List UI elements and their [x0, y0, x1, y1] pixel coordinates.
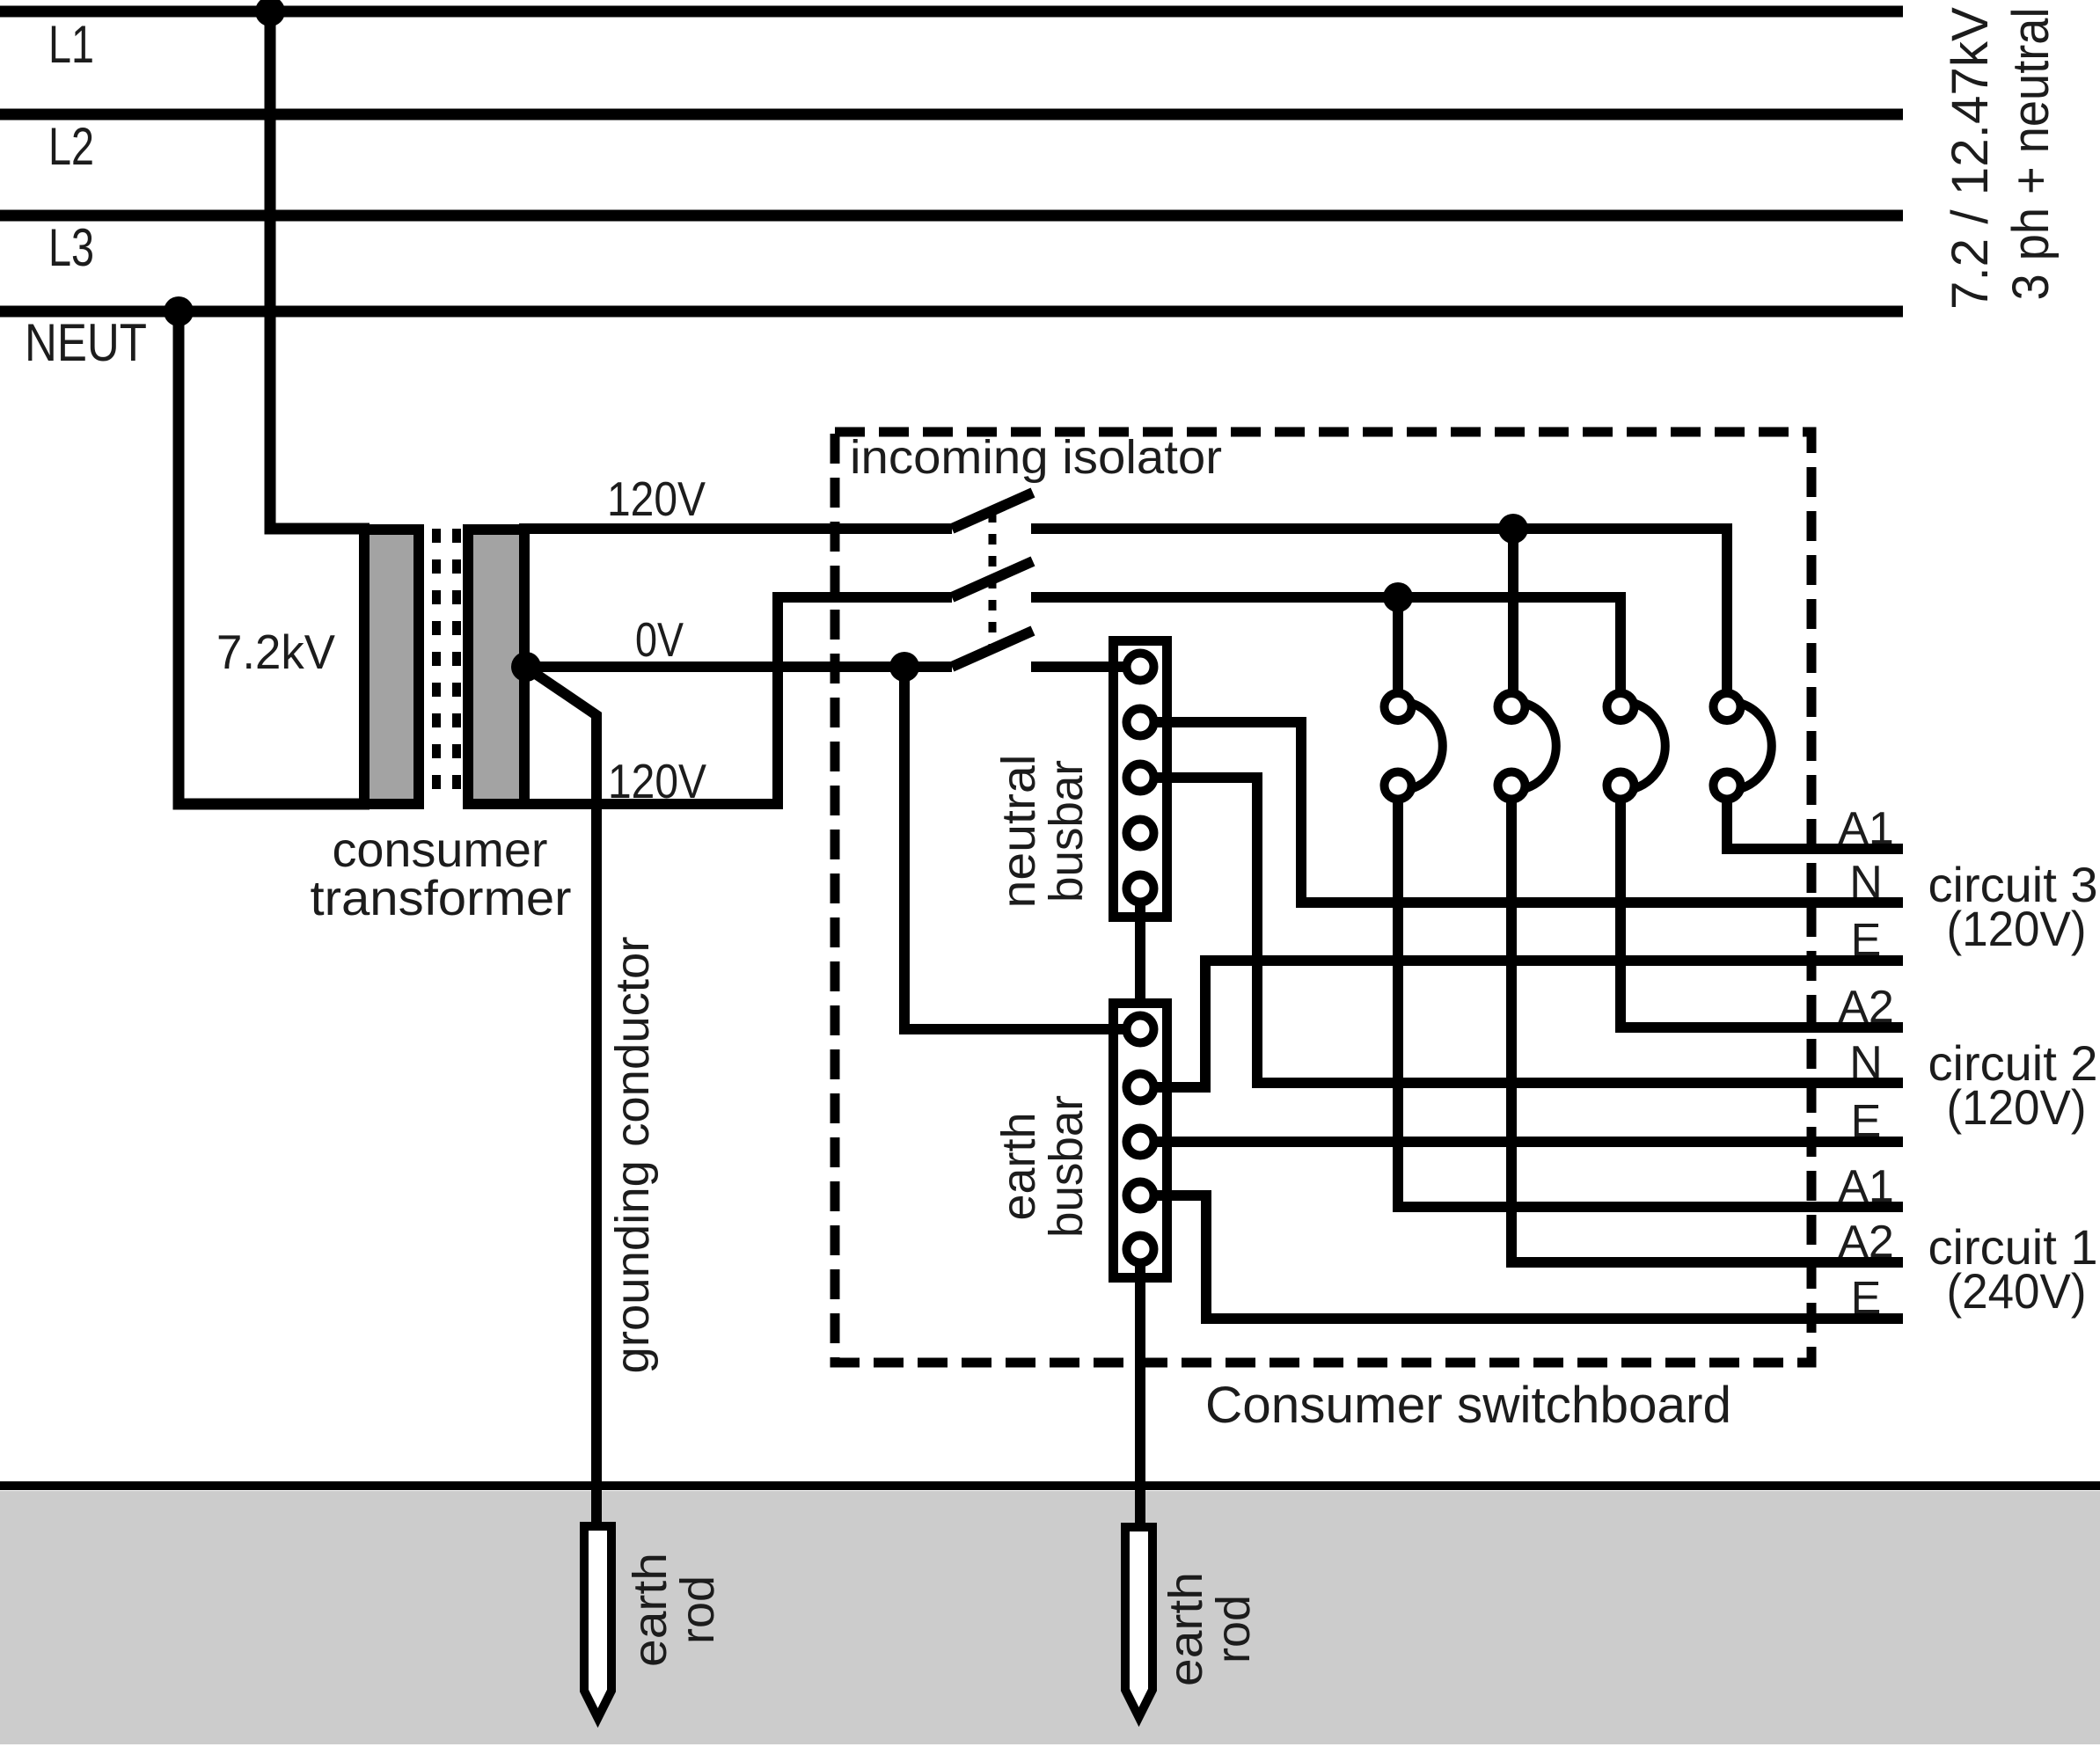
node: transformer centre tap — [511, 652, 541, 682]
svg-text:E: E — [1851, 915, 1882, 966]
svg-text:earth: earth — [992, 1112, 1045, 1220]
wire: pole 2 output to breaker 3 feed — [1031, 597, 1621, 693]
svg-text:A2: A2 — [1838, 1217, 1894, 1268]
svg-text:3 ph + neutral: 3 ph + neutral — [2002, 8, 2060, 301]
svg-text:E: E — [1851, 1273, 1882, 1324]
node: L1 tap junction — [255, 0, 285, 26]
wire: L1 tap down to transformer primary top — [270, 11, 370, 529]
wire: breaker 2 to circuit 1 A2 — [1511, 802, 1903, 1262]
svg-text:earth: earth — [624, 1553, 677, 1667]
svg-text:A1: A1 — [1838, 803, 1894, 854]
isolator mechanical link (dashed) — [989, 512, 997, 649]
wire: earth busbar to circuit 1 E — [1140, 1195, 1903, 1319]
breaker 4 — [1714, 693, 1772, 800]
svg-text:grounding conductor: grounding conductor — [606, 936, 659, 1373]
svg-text:(120V): (120V) — [1947, 901, 2087, 956]
svg-text:neutral: neutral — [992, 755, 1045, 909]
svg-text:incoming isolator: incoming isolator — [850, 431, 1222, 484]
svg-text:(240V): (240V) — [1947, 1263, 2087, 1319]
node: 0V earth branch junction — [889, 652, 919, 682]
svg-text:A2: A2 — [1838, 982, 1894, 1033]
svg-text:transformer: transformer — [311, 870, 572, 925]
svg-text:rod: rod — [671, 1575, 724, 1644]
wire: earth busbar down to earth rod — [1135, 1249, 1145, 1528]
wire: neutral busbar to earth busbar link — [1135, 888, 1145, 1003]
svg-text:0V: 0V — [635, 612, 684, 667]
earth rod (transformer) — [584, 1526, 611, 1718]
svg-text:7.2kV: 7.2kV — [216, 625, 335, 679]
transformer T1 secondary winding — [468, 530, 524, 804]
ground (earth mass) — [0, 1491, 2100, 1744]
svg-text:N: N — [1849, 857, 1883, 908]
svg-text:A1: A1 — [1838, 1161, 1894, 1212]
breaker 1 — [1385, 693, 1443, 800]
power line L1 — [0, 6, 1903, 18]
breaker 3 — [1607, 693, 1665, 800]
svg-text:120V: 120V — [607, 471, 706, 526]
svg-text:NEUT: NEUT — [25, 313, 147, 372]
neutral busbar body — [1114, 641, 1167, 917]
svg-text:E: E — [1851, 1096, 1882, 1147]
node: NEUT tap junction — [164, 296, 194, 326]
svg-text:120V: 120V — [608, 754, 706, 808]
wire: secondary 120V top to isolator pole 1 — [519, 523, 952, 534]
svg-text:rod: rod — [1207, 1595, 1260, 1663]
wire: neutral busbar to circuit 3 N — [1140, 722, 1903, 903]
node: breaker 2 feed junction — [1498, 514, 1528, 544]
svg-text:7.2 / 12.47kV: 7.2 / 12.47kV — [1942, 7, 1999, 310]
svg-text:earth: earth — [1160, 1572, 1212, 1686]
wire: breaker 2 feed from pole 1 wire — [1508, 529, 1518, 693]
svg-text:consumer: consumer — [333, 822, 548, 877]
wire: breaker 1 to circuit 1 A1 — [1398, 802, 1903, 1207]
neutral busbar terminals — [1127, 654, 1154, 903]
power line L2 — [0, 109, 1903, 121]
isolator switch pole 1 blade — [952, 493, 1033, 529]
wire: secondary 0V centre tap to isolator pole 3 — [524, 662, 952, 672]
isolator switch pole 3 blade — [952, 631, 1033, 667]
svg-text:Consumer switchboard: Consumer switchboard — [1205, 1377, 1731, 1434]
svg-text:busbar: busbar — [1040, 1095, 1093, 1238]
wire: earth busbar to circuit 2 E — [1140, 1137, 1903, 1147]
wire: pole 3 output to neutral busbar — [1031, 662, 1140, 672]
wire: grounding conductor — [528, 669, 596, 1522]
svg-text:N: N — [1849, 1037, 1883, 1088]
wire: earth busbar to circuit 3 E — [1140, 961, 1903, 1087]
earth busbar body — [1114, 1004, 1167, 1278]
node: breaker 1 feed junction — [1383, 582, 1413, 612]
transformer T1 primary winding — [364, 530, 419, 804]
svg-text:L1: L1 — [48, 15, 94, 74]
wire: neutral busbar to circuit 2 N — [1140, 778, 1903, 1083]
ground surface line — [0, 1481, 2100, 1490]
transformer T1 core — [436, 529, 457, 798]
power line L3 — [0, 210, 1903, 222]
svg-text:L3: L3 — [48, 218, 94, 277]
consumer switchboard enclosure (dashed) — [835, 432, 1811, 1363]
wire: secondary 120V bottom riser to isolator pole 2 — [519, 597, 952, 804]
earth rod (switchboard) — [1125, 1527, 1152, 1717]
wire: breaker 3 to circuit 2 A2 — [1621, 802, 1903, 1027]
svg-text:(120V): (120V) — [1947, 1079, 2087, 1135]
power line NEUT — [0, 306, 1903, 318]
wire: pole 1 output to breaker 4 feed — [1031, 529, 1727, 693]
isolator switch pole 2 blade — [952, 561, 1033, 597]
earth busbar terminals — [1127, 1016, 1154, 1263]
svg-text:L2: L2 — [48, 117, 94, 176]
wire: NEUT tap down to transformer primary bottom — [179, 311, 370, 804]
wire: breaker 4 to circuit 3 A1 — [1727, 802, 1903, 849]
wire: 0V branch to earth busbar — [904, 667, 1140, 1029]
breaker 2 — [1498, 693, 1556, 800]
wire: breaker 1 feed from pole 2 wire — [1393, 597, 1403, 693]
svg-text:busbar: busbar — [1040, 760, 1093, 903]
